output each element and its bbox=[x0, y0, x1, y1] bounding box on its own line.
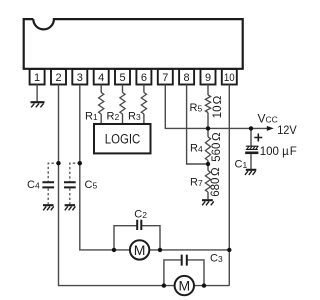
junction C2 right bbox=[158, 248, 162, 252]
svg-text:5: 5 bbox=[119, 72, 125, 84]
svg-text:C2: C2 bbox=[134, 208, 147, 220]
svg-text:680Ω: 680Ω bbox=[210, 167, 222, 197]
svg-text:2: 2 bbox=[55, 72, 61, 84]
pin 9 box bbox=[201, 69, 216, 85]
junction C3 left bbox=[162, 283, 166, 287]
junction C1 tap on Vcc line bbox=[249, 126, 253, 130]
wire pin1 to ground bbox=[36, 85, 38, 102]
pin 8 box bbox=[179, 69, 194, 85]
IC body U1 with notch bbox=[24, 19, 243, 69]
ground under C4 bbox=[43, 205, 54, 210]
svg-text:R5: R5 bbox=[190, 102, 203, 114]
svg-text:R7: R7 bbox=[190, 177, 203, 189]
junction C2 left bbox=[112, 248, 116, 252]
wire pin3 down to motor1 rail (line A) bbox=[80, 85, 230, 250]
capacitor C1 (electrolytic) bbox=[250, 128, 252, 146]
capacitor C3 loop bbox=[164, 260, 204, 286]
svg-text:C1: C1 bbox=[235, 159, 248, 171]
resistor R5 (pin 9) bbox=[207, 85, 209, 96]
motor M2 bbox=[175, 276, 194, 295]
svg-text:9: 9 bbox=[205, 72, 211, 84]
svg-text:4: 4 bbox=[98, 72, 104, 84]
svg-text:C5: C5 bbox=[85, 179, 98, 191]
svg-text:12V: 12V bbox=[277, 125, 297, 137]
wire pin2 down to motor2 rail bbox=[59, 85, 230, 286]
pin 2 box bbox=[51, 69, 66, 85]
svg-text:560Ω: 560Ω bbox=[211, 132, 223, 162]
junction R4/R7/pin8 node bbox=[206, 162, 210, 166]
pin 10 box bbox=[222, 69, 237, 85]
svg-text:R3: R3 bbox=[128, 111, 141, 123]
pin 3 box bbox=[72, 69, 87, 85]
pin 7 box bbox=[158, 69, 173, 85]
resistor R2 bbox=[122, 85, 124, 93]
svg-text:1: 1 bbox=[34, 72, 40, 84]
svg-text:7: 7 bbox=[162, 72, 168, 84]
svg-text:C3: C3 bbox=[210, 253, 223, 265]
svg-text:8: 8 bbox=[184, 72, 190, 84]
resistor R4 bbox=[207, 128, 209, 136]
junction line A to pin10 wire bbox=[227, 248, 231, 252]
svg-text:M: M bbox=[134, 242, 146, 258]
svg-text:M: M bbox=[178, 278, 190, 294]
svg-text:100 µF: 100 µF bbox=[260, 146, 297, 158]
arrow to 12V bbox=[267, 126, 274, 131]
svg-text:VCC: VCC bbox=[258, 112, 278, 126]
junction C3 right bbox=[202, 283, 206, 287]
resistor R1 bbox=[100, 85, 102, 93]
pin 6 box bbox=[136, 69, 151, 85]
junction R5/R4 on Vcc line bbox=[206, 126, 210, 130]
resistor R3 bbox=[143, 85, 145, 93]
plus sign bbox=[254, 134, 262, 142]
svg-text:R2: R2 bbox=[107, 111, 120, 123]
capacitor C4 (dashed connection) bbox=[48, 163, 58, 181]
ground under C1 bbox=[245, 170, 256, 175]
wire pin7 to Vcc line bbox=[165, 85, 267, 129]
svg-text:LOGIC: LOGIC bbox=[105, 131, 141, 146]
svg-text:10Ω: 10Ω bbox=[212, 96, 224, 119]
ground under R7 bbox=[202, 200, 214, 205]
wire pin8 to R4/R7 node bbox=[187, 85, 208, 165]
svg-text:6: 6 bbox=[141, 72, 147, 84]
svg-text:R1: R1 bbox=[85, 111, 98, 123]
LOGIC box bbox=[94, 124, 151, 153]
capacitor C5 (dashed connection) bbox=[70, 163, 80, 181]
svg-text:10: 10 bbox=[224, 72, 235, 84]
pin 5 box bbox=[115, 69, 130, 85]
junction C5 tap bbox=[78, 161, 82, 165]
junction C4 tap bbox=[56, 161, 60, 165]
svg-text:3: 3 bbox=[77, 72, 83, 84]
ground under C5 bbox=[65, 205, 76, 210]
capacitor C2 loop bbox=[114, 226, 160, 250]
resistor R7 bbox=[207, 164, 209, 171]
wire pin10 down to motor2 rail bbox=[228, 85, 230, 286]
pin 4 box bbox=[94, 69, 109, 85]
ground under pin 1 bbox=[31, 102, 45, 107]
pin 1 box bbox=[30, 69, 45, 85]
motor M1 bbox=[130, 240, 149, 259]
svg-text:C4: C4 bbox=[27, 179, 40, 191]
svg-text:R4: R4 bbox=[190, 143, 203, 155]
